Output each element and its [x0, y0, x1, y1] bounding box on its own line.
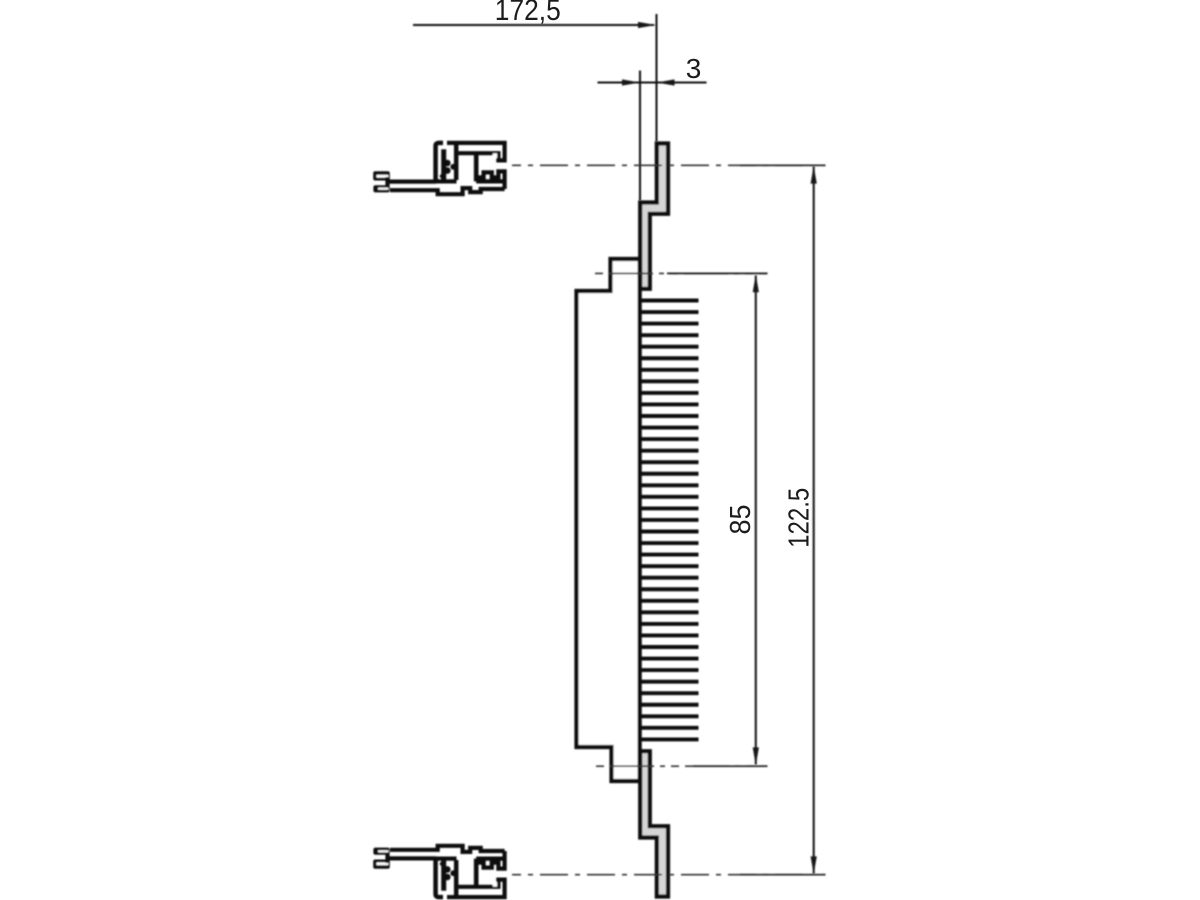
svg-text:172,5: 172,5 [495, 0, 561, 27]
svg-text:3: 3 [686, 53, 702, 84]
svg-text:85: 85 [725, 505, 757, 535]
svg-text:122.5: 122.5 [784, 488, 816, 548]
